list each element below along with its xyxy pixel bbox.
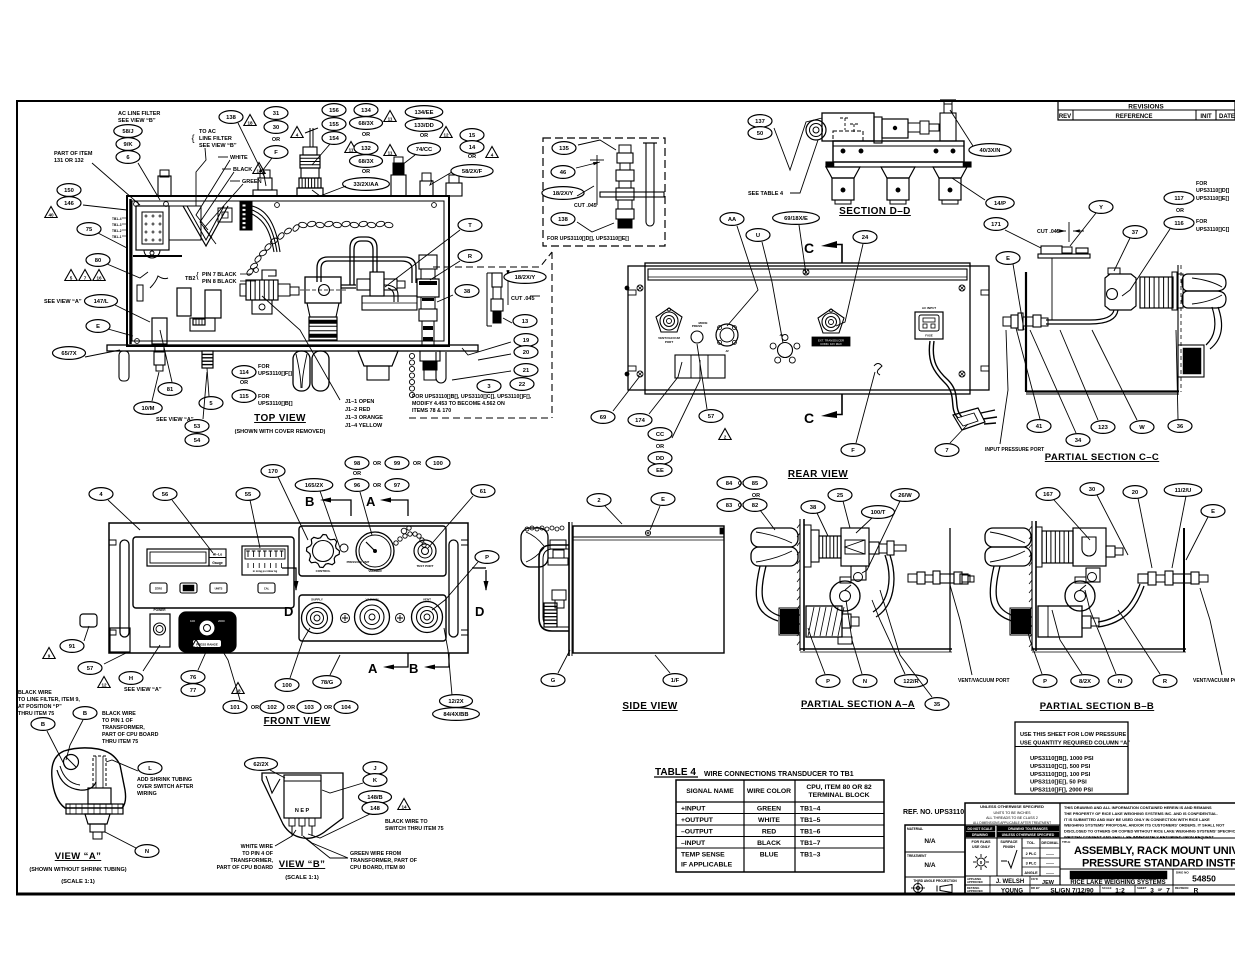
balloon 55 <box>236 488 260 501</box>
5 pin connector <box>778 343 793 358</box>
svg-text:FOR: FOR <box>1196 181 1207 187</box>
title block main outline <box>965 803 1235 894</box>
transducer block cc <box>1105 274 1136 310</box>
svg-text:REV: REV <box>1059 114 1071 120</box>
svg-text:GREEN: GREEN <box>757 806 781 813</box>
svg-text:74/CC: 74/CC <box>416 147 433 153</box>
transducer ribbed body <box>309 317 337 340</box>
balloon 50 <box>748 127 772 140</box>
balloon 57 <box>78 662 102 675</box>
svg-text:36: 36 <box>1177 424 1184 430</box>
lower thin plate <box>826 162 971 167</box>
svg-text:B: B <box>409 661 418 676</box>
svg-text:VIEW “A”: VIEW “A” <box>55 851 101 862</box>
svg-text:CPU, ITEM 80 OR 82: CPU, ITEM 80 OR 82 <box>806 784 872 791</box>
balloon 33/2X/AA <box>343 178 390 191</box>
ribbed cylinder bb <box>1042 531 1073 563</box>
wire bundle curving from connector <box>252 206 280 252</box>
balloon R <box>1153 675 1177 688</box>
approval rows <box>965 884 1235 886</box>
table 4 wire connections <box>654 767 884 872</box>
svg-text:CPU BOARD, ITEM 80: CPU BOARD, ITEM 80 <box>350 865 405 871</box>
pin with U bottom <box>646 143 654 226</box>
svg-text:134/EE: 134/EE <box>414 110 433 116</box>
front panel wall bb <box>1031 521 1033 651</box>
svg-text:TABLE 4: TABLE 4 <box>655 767 696 778</box>
balloon 7 <box>935 444 959 457</box>
balloon E <box>86 320 110 333</box>
svg-text:4: 4 <box>296 133 299 138</box>
svg-text:USE QUANTITY REQUIRED COLUMN “: USE QUANTITY REQUIRED COLUMN “A” <box>1020 741 1130 747</box>
svg-text:OR: OR <box>251 705 259 711</box>
balloon 13 <box>513 315 537 328</box>
svg-text:40/3X/N: 40/3X/N <box>980 148 1001 154</box>
panel flange rings <box>1172 272 1177 310</box>
svg-text:57: 57 <box>87 666 93 672</box>
svg-text:97: 97 <box>394 483 400 489</box>
balloon 11/2/U <box>1164 484 1202 497</box>
balloon 99 <box>385 457 409 470</box>
board divider line <box>133 255 182 257</box>
svg-text:2 PLC: 2 PLC <box>1026 852 1037 856</box>
meter module <box>299 526 446 576</box>
balloon 96 <box>345 479 369 492</box>
svg-text:TRANSFORMER,: TRANSFORMER, <box>102 725 145 731</box>
svg-text:123: 123 <box>1098 425 1108 431</box>
flag triangle 12 <box>98 677 110 688</box>
front panel outline <box>109 523 468 653</box>
svg-text:R: R <box>1194 888 1199 895</box>
svg-text:8/2X: 8/2X <box>1079 679 1091 685</box>
svg-text:165/2X: 165/2X <box>305 483 324 489</box>
svg-text:174: 174 <box>635 418 645 424</box>
svg-text:9/K: 9/K <box>123 142 133 148</box>
revisions table <box>1058 101 1235 120</box>
svg-text:138: 138 <box>558 217 568 223</box>
svg-text:WRITTEN CONSENT AND SHALL BE I: WRITTEN CONSENT AND SHALL BE IMMEDIATELY… <box>1064 835 1214 840</box>
manifold striped cylinders <box>246 280 278 300</box>
svg-text:18/2X/Y: 18/2X/Y <box>515 275 536 281</box>
balloon 116 <box>1164 217 1194 230</box>
svg-text:TB1–3: TB1–3 <box>112 223 122 227</box>
svg-text:ALL THREADS TO BE CLASS 2: ALL THREADS TO BE CLASS 2 <box>986 816 1038 820</box>
svg-text:(SCALE 1:1): (SCALE 1:1) <box>285 875 319 881</box>
capacitor component <box>190 318 215 331</box>
hose right aa <box>876 555 894 617</box>
balloon 37 <box>1123 226 1147 239</box>
svg-text:20: 20 <box>1132 490 1138 496</box>
svg-text:OR: OR <box>1176 208 1184 214</box>
svg-text:VIEW “B”: VIEW “B” <box>279 859 325 870</box>
chain beads <box>394 541 398 545</box>
svg-text:J1–2 RED: J1–2 RED <box>345 407 370 413</box>
display module <box>133 537 294 608</box>
svg-text:VENT/VACUUM PORT: VENT/VACUUM PORT <box>958 678 1010 684</box>
panel corner notches <box>109 540 116 545</box>
leg left <box>119 351 129 381</box>
cylinder <box>874 117 882 143</box>
svg-text:U: U <box>756 233 760 239</box>
balloon 104 <box>334 701 358 714</box>
svg-text:DRAWING: DRAWING <box>972 833 988 837</box>
svg-text:GREEN: GREEN <box>242 179 262 185</box>
hose cc <box>1046 310 1114 320</box>
balloon 57 <box>699 410 723 423</box>
svg-text:150: 150 <box>64 188 74 194</box>
title block <box>903 803 1235 895</box>
bolt foot <box>154 351 165 365</box>
svg-text:TREATMENT: TREATMENT <box>907 854 926 858</box>
dip switch block <box>242 546 288 575</box>
svg-text:(SCALE 1:1): (SCALE 1:1) <box>61 879 95 885</box>
bottom chassis line aa <box>800 648 952 650</box>
power cord <box>929 341 958 418</box>
svg-text:12: 12 <box>101 683 107 688</box>
pressure transducer block <box>305 277 341 303</box>
svg-text:D: D <box>284 604 293 619</box>
balloon N <box>135 845 159 858</box>
svg-text:132: 132 <box>361 146 371 152</box>
svg-text:61: 61 <box>480 489 487 495</box>
svg-text:TB1–5: TB1–5 <box>800 817 821 824</box>
svg-text:102: 102 <box>267 705 277 711</box>
REAR VIEW <box>591 212 997 480</box>
rod fittings <box>908 123 920 132</box>
svg-text:THRU ITEM 75: THRU ITEM 75 <box>18 711 54 717</box>
balloon 4 <box>89 488 113 501</box>
cone symbol <box>940 885 952 893</box>
feet <box>826 167 860 178</box>
table 4 outline <box>676 780 884 872</box>
flag triangle 4 <box>486 147 498 158</box>
svg-text:14/P: 14/P <box>994 201 1006 207</box>
small fittings side <box>550 540 566 549</box>
svg-text:TB1–1: TB1–1 <box>112 235 122 239</box>
svg-text:OR: OR <box>287 705 295 711</box>
svg-text:P: P <box>826 679 830 685</box>
svg-text:F: F <box>274 150 278 156</box>
balloon 77 <box>181 684 205 697</box>
balloon 21 <box>514 364 538 377</box>
svg-text:131 OR 132: 131 OR 132 <box>54 158 84 164</box>
svg-text:SIDE VIEW: SIDE VIEW <box>622 701 677 712</box>
base plate <box>833 141 964 162</box>
pump fitting right aa <box>842 614 851 628</box>
svg-text:PIN 7 BLACK: PIN 7 BLACK <box>202 272 237 278</box>
drawing border frame left edge <box>16 101 18 895</box>
dark cylinder foot <box>202 351 213 368</box>
square block next to panel edge <box>110 628 130 652</box>
svg-text:Y: Y <box>1099 205 1103 211</box>
svg-text:OR: OR <box>468 154 476 160</box>
balloon 54 <box>185 434 209 447</box>
svg-text:84/4X/BB: 84/4X/BB <box>443 712 468 718</box>
svg-text:L: L <box>148 766 152 772</box>
svg-text:J: J <box>373 766 376 772</box>
dashed boundary right <box>551 252 553 418</box>
svg-text:134: 134 <box>361 108 371 114</box>
bulkhead fitting between walls <box>908 574 917 582</box>
dim lines cut 045 <box>507 277 509 305</box>
svg-text:56: 56 <box>162 492 169 498</box>
small vernier circle <box>340 544 348 552</box>
balloon 122/R <box>895 675 928 688</box>
svg-text:N/A: N/A <box>924 862 936 869</box>
top view balloons and labels <box>44 104 498 447</box>
svg-text:WEIGHING SYSTEMS' PROPOSAL AND: WEIGHING SYSTEMS' PROPOSAL AND/OR ITS CU… <box>1064 823 1225 828</box>
svg-text:FOR: FOR <box>258 364 270 370</box>
balloon 84/4X/BB <box>433 708 480 721</box>
svg-text:SUPPLY: SUPPLY <box>311 598 323 602</box>
balloon 98 <box>345 457 369 470</box>
label bar under connector <box>812 337 850 346</box>
tolerance grid <box>1039 838 1041 876</box>
svg-text:TB1–2: TB1–2 <box>112 229 122 233</box>
small component box <box>218 208 232 222</box>
lower small parts side <box>552 590 566 600</box>
svg-text:AA: AA <box>728 217 737 223</box>
svg-text:OR: OR <box>272 137 280 143</box>
fitting above left <box>158 176 171 196</box>
svg-text:EE: EE <box>656 468 664 474</box>
balloon 18/2X/Y <box>542 187 584 200</box>
balloon 102 <box>260 701 284 714</box>
flag triangle 9 <box>43 648 55 659</box>
svg-text:68/3X: 68/3X <box>358 121 373 127</box>
svg-text:W: W <box>1139 425 1145 431</box>
svg-text:B: B <box>41 722 45 728</box>
svg-text:IT IS SUBMITTED AND MAY BE USE: IT IS SUBMITTED AND MAY BE USED ONLY IN … <box>1064 817 1210 822</box>
svg-text:FOR: FOR <box>1196 219 1207 225</box>
svg-text:ZERO: ZERO <box>155 587 162 591</box>
balloon E <box>651 493 675 506</box>
svg-text:J1–1 OPEN: J1–1 OPEN <box>345 399 374 405</box>
tube loop small <box>350 237 377 285</box>
svg-text:CUT .045: CUT .045 <box>511 296 535 302</box>
balloon U <box>746 229 770 242</box>
svg-text:11/2/U: 11/2/U <box>1175 488 1192 494</box>
pressure unit selector black module <box>179 612 236 652</box>
component 5 rect <box>205 290 221 318</box>
svg-text:WHITE: WHITE <box>758 817 780 824</box>
svg-text:+INPUT: +INPUT <box>681 806 706 813</box>
pump dark ribbed bb <box>1010 608 1032 635</box>
svg-text:4: 4 <box>491 153 494 158</box>
svg-text:C: C <box>804 410 814 426</box>
supply port <box>302 603 333 634</box>
svg-text:20: 20 <box>523 350 529 356</box>
svg-text:THRU ITEM 75: THRU ITEM 75 <box>102 739 138 745</box>
svg-text:TOL.: TOL. <box>1027 841 1036 845</box>
svg-text:TO PIN 1 OF: TO PIN 1 OF <box>102 718 134 724</box>
flange rings bb <box>1036 527 1042 567</box>
balloon P <box>1033 675 1057 688</box>
svg-text:31: 31 <box>273 111 280 117</box>
svg-text:AT POSITION “P”: AT POSITION “P” <box>18 704 62 710</box>
svg-text:FINISH: FINISH <box>1003 845 1015 849</box>
solenoid valve right stack <box>419 255 437 269</box>
fitting right bb <box>1106 546 1115 557</box>
svg-text:76: 76 <box>190 675 197 681</box>
svg-text:E: E <box>1211 509 1215 515</box>
dwg no cell <box>1172 869 1174 885</box>
balloon 69/18X/E <box>773 212 820 225</box>
fitting top right of chassis <box>446 183 462 196</box>
svg-text:RED: RED <box>762 829 776 836</box>
balloon 30 <box>1080 483 1104 496</box>
svg-text:114: 114 <box>239 370 249 376</box>
mount plate in detail box <box>600 192 664 197</box>
svg-text:SEE VIEW “B”: SEE VIEW “B” <box>118 118 156 124</box>
VIEW A switch detail <box>18 690 193 885</box>
balloon 12/2X <box>440 695 473 708</box>
svg-text:–INPUT: –INPUT <box>681 840 706 847</box>
svg-text:TB1–3: TB1–3 <box>800 852 821 859</box>
svg-text:THIS DRAWING AND ALL INFORMATI: THIS DRAWING AND ALL INFORMATION CONTAIN… <box>1064 805 1212 810</box>
balloon 148 <box>362 802 388 815</box>
svg-text:DR BY: DR BY <box>1031 886 1040 890</box>
svg-text:68/3X: 68/3X <box>358 159 373 165</box>
svg-text:FUSE: FUSE <box>925 334 933 338</box>
unless otherwise specified block <box>1059 803 1061 885</box>
svg-text:PART OF CPU BOARD: PART OF CPU BOARD <box>102 732 159 738</box>
wire V bundle <box>183 206 228 246</box>
switch block <box>88 788 111 804</box>
svg-text:TO AC: TO AC <box>199 129 216 135</box>
ear notches <box>628 290 636 295</box>
balloon 97 <box>385 479 409 492</box>
right wall aa <box>949 528 951 652</box>
pump dark ribbed aa <box>779 608 800 635</box>
balloon 58/J <box>114 125 142 138</box>
svg-text:UPS3110[]E[], 50 PSI: UPS3110[]E[], 50 PSI <box>1030 780 1087 786</box>
svg-text:18: 18 <box>247 121 253 126</box>
tube loop large <box>317 257 416 283</box>
svg-text:OR: OR <box>373 483 381 489</box>
balloon EE <box>648 464 672 477</box>
balloon 61 <box>471 485 495 498</box>
inner block <box>284 775 321 818</box>
dashed chain wire across chassis <box>298 222 307 229</box>
svg-text:54: 54 <box>194 438 201 444</box>
gauge behind panel aa <box>830 581 860 611</box>
svg-text:57: 57 <box>708 414 714 420</box>
tube from transducer to cross <box>341 285 356 288</box>
svg-text:REVISIONS: REVISIONS <box>1128 104 1164 111</box>
balloon 9/K <box>116 138 140 151</box>
svg-text:J1–4 YELLOW: J1–4 YELLOW <box>345 423 383 429</box>
side box <box>573 526 724 653</box>
balloon 80 <box>86 254 110 267</box>
for rlws use only cell <box>996 825 998 876</box>
balloon 138 <box>551 213 575 226</box>
svg-text:OF: OF <box>1158 888 1162 892</box>
svg-text:POWER: POWER <box>153 608 166 612</box>
balloon 76 <box>181 671 205 684</box>
svg-text:98: 98 <box>354 461 361 467</box>
pump fitting right bb <box>1082 616 1091 628</box>
svg-text:ASSEMBLY, RACK MOUNT UNIVERSAL: ASSEMBLY, RACK MOUNT UNIVERSAL <box>1074 845 1235 857</box>
bottom chassis line bb <box>1032 648 1186 650</box>
fitting right aa <box>869 542 879 554</box>
svg-text:OR: OR <box>656 444 664 450</box>
svg-text:B: B <box>305 494 314 509</box>
button dark icon <box>183 585 194 591</box>
bulkhead fitting cc <box>1003 317 1011 326</box>
svg-text:33/2X/AA: 33/2X/AA <box>353 182 379 188</box>
svg-text:USE ONLY: USE ONLY <box>972 845 991 849</box>
svg-text:THIRD ANGLE PROJECTION: THIRD ANGLE PROJECTION <box>913 879 957 883</box>
svg-text:WIRE COLOR: WIRE COLOR <box>747 788 791 795</box>
svg-text:TB1–7: TB1–7 <box>800 840 821 847</box>
svg-text:1:2: 1:2 <box>1115 888 1125 895</box>
bulkhead fitting bb <box>1138 574 1148 583</box>
svg-text:UNITS: UNITS <box>215 587 223 591</box>
balloon 167 <box>1036 488 1060 501</box>
svg-text:AC INPUT: AC INPUT <box>922 306 936 310</box>
svg-text:DISCLOSED TO OTHERS OR COPIED: DISCLOSED TO OTHERS OR COPIED WITHOUT RI… <box>1064 829 1235 834</box>
balloon 30 <box>264 121 288 134</box>
svg-text:ALL DIMENSIONS APPLICABLE AFTE: ALL DIMENSIONS APPLICABLE AFTER TREATMEN… <box>973 821 1051 825</box>
svg-text:TRANSFORMER,: TRANSFORMER, <box>230 858 273 864</box>
balloon G <box>541 674 565 687</box>
svg-text:OR: OR <box>420 133 428 139</box>
svg-text:148: 148 <box>370 806 380 812</box>
svg-text:MATERIAL: MATERIAL <box>907 827 923 831</box>
svg-text:101: 101 <box>230 705 240 711</box>
rear lid band <box>648 269 967 280</box>
balloon 2 <box>587 494 611 507</box>
chassis left folded edge <box>129 199 132 344</box>
svg-text:VENT/VACUUM PORT: VENT/VACUUM PORT <box>1193 678 1235 684</box>
balloon 14/P <box>986 197 1014 210</box>
svg-text:16: 16 <box>96 276 102 281</box>
svg-text:P: P <box>485 555 489 561</box>
corner screws <box>637 285 643 291</box>
svg-text:J2: J2 <box>725 349 729 353</box>
svg-text:FOR UPS3110[]B[], UPS3110[]C[]: FOR UPS3110[]B[], UPS3110[]C[], UPS3110[… <box>412 394 532 400</box>
left handle <box>120 540 129 637</box>
svg-text:UPS3110[]F[], 2000 PSI: UPS3110[]F[], 2000 PSI <box>1030 788 1093 794</box>
svg-text:F: F <box>851 448 855 454</box>
svg-text:1/F: 1/F <box>671 678 680 684</box>
svg-text:CAL: CAL <box>264 587 270 591</box>
balloon K <box>363 774 387 787</box>
balloon 58/2X/F <box>451 165 493 178</box>
balloon 174 <box>628 414 652 427</box>
svg-text:OR: OR <box>373 461 381 467</box>
svg-text:BLACK WIRE: BLACK WIRE <box>18 690 52 696</box>
svg-text:REAR VIEW: REAR VIEW <box>788 469 848 480</box>
svg-text:96: 96 <box>354 483 361 489</box>
svg-text:PORT: PORT <box>665 340 674 344</box>
chassis screws <box>134 202 139 207</box>
svg-text:FOR UPS3110[]D[], UPS3110[]E[]: FOR UPS3110[]D[], UPS3110[]E[] <box>547 236 629 242</box>
svg-text:A: A <box>368 661 378 676</box>
front panel edge lines <box>568 522 570 656</box>
svg-text:——: —— <box>1046 861 1054 866</box>
PARTIAL SECTION A-A <box>717 477 970 711</box>
balloon 146 <box>57 197 81 210</box>
TOP VIEW assembly <box>107 196 478 398</box>
svg-text:J. WELSH: J. WELSH <box>996 879 1024 885</box>
pump cylinder aa <box>806 606 842 637</box>
svg-text:BLACK: BLACK <box>757 840 781 847</box>
knob cc <box>1182 274 1226 291</box>
balloon 134 <box>354 104 378 117</box>
balloon 68/3X <box>350 117 383 130</box>
svg-text:0: 0 <box>980 860 983 865</box>
